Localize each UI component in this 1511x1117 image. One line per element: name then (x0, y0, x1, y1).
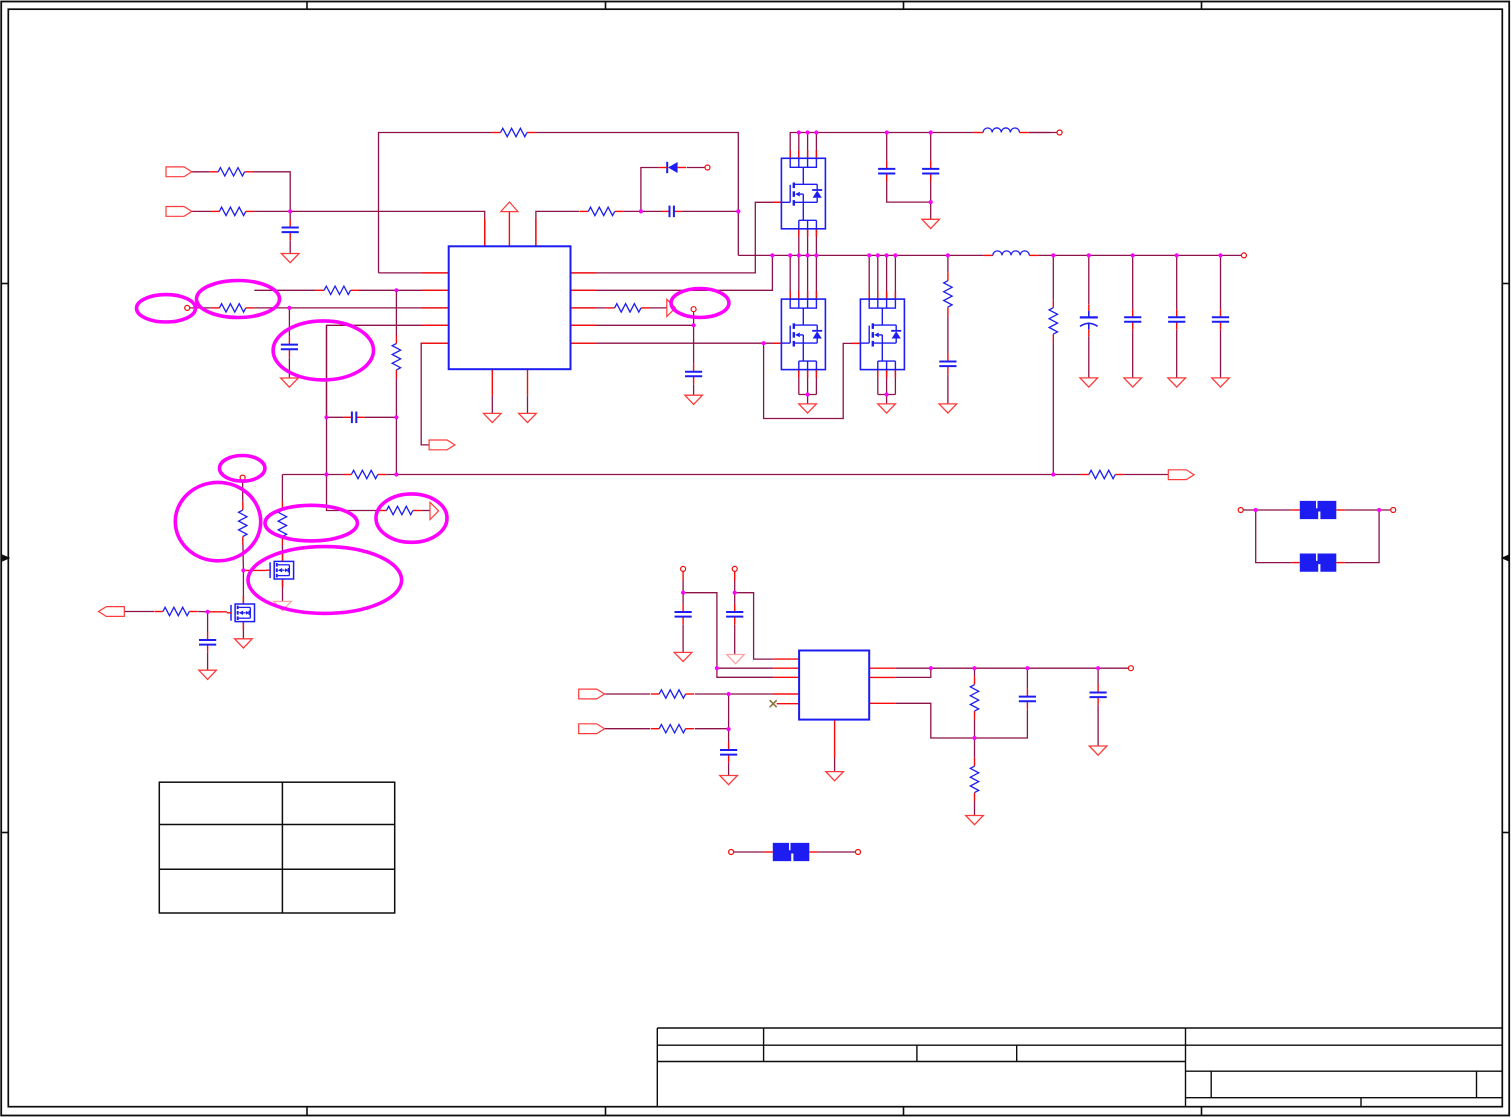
junction rail x1220.5 (1218, 253, 1222, 257)
U2 left pin y694 (773, 693, 799, 695)
wire x396 vertical upper (395, 290, 397, 343)
wire C4 down (886, 133, 888, 169)
terminal circle T2 (732, 566, 737, 571)
wire gate node to M2 drain (242, 570, 244, 604)
wire cap x1132.7 top (1132, 255, 1134, 317)
Q2 top pin wire x798.8 (798, 255, 800, 299)
IC U1 left pin y290.3 (422, 289, 449, 291)
capacitor C11 (1019, 689, 1036, 710)
resistor R8 (snubber) (943, 272, 954, 315)
wire cap x1132.7 gnd (1132, 330, 1134, 378)
junction rail x869.2 (867, 253, 871, 257)
wire gate node down (207, 612, 209, 640)
inductor L2 (984, 249, 1039, 256)
wire cap x1220.5 gnd (1220, 330, 1222, 378)
Q1 top pin stub x798.8 (798, 150, 800, 158)
ground below cap x1220.5 (1212, 378, 1230, 387)
ground below C7 (199, 670, 217, 679)
Q3 top pin stub x886.6 (886, 291, 888, 299)
capacitor output x1176.7 (1168, 309, 1185, 330)
capacitor C6 (344, 412, 364, 424)
resistor R17 (651, 689, 694, 700)
highlight ellipse E1 (137, 295, 196, 322)
wire C1 to gnd (289, 240, 291, 253)
junction rail x816.4 (814, 253, 818, 257)
junction rail x947.9 (946, 253, 950, 257)
rail segment left (738, 254, 984, 256)
wire F3 to F2 right (1345, 510, 1379, 563)
frame zone tick bottom x307 (306, 1107, 308, 1116)
wire C6 right (364, 416, 396, 418)
Q1 bottom pin stub x816.4 (815, 229, 817, 237)
rail segment right (1036, 254, 1241, 256)
ground IC1 bottom 2 (519, 413, 537, 422)
Q1 bottom pin wire x798.8 (798, 229, 800, 256)
junction rail x1088.8 (1087, 253, 1091, 257)
junction rail x886.6 (885, 253, 889, 257)
Q1 bottom pin wire x816.4 (815, 229, 817, 256)
U2 right pin y668.2 (869, 667, 896, 669)
frame zone tick bottom x1201.5 (1201, 1107, 1203, 1116)
ground below M1 (pale) (274, 601, 292, 610)
junction Q1 pin x807.6 (806, 130, 810, 134)
capacitor C5 (922, 161, 939, 182)
junction fb node (972, 736, 976, 740)
wire U2 pinC down (896, 703, 975, 738)
wire R12 to P7 (417, 510, 430, 512)
wire C4 bottom corner (887, 182, 931, 203)
wire R20 to gnd (974, 793, 976, 816)
junction rail x895.4 (893, 253, 897, 257)
frame zone tick top x307 (306, 2, 308, 10)
ground below Q2 (799, 404, 817, 413)
resistor R15 (277, 502, 288, 545)
F3 right stub (1336, 562, 1345, 564)
wire to IC1 left pin1 (379, 272, 449, 274)
wire P10 row (605, 728, 651, 730)
wire cap x1220.5 top (1220, 255, 1222, 317)
Q1 bottom pin wire x807.6 (807, 229, 809, 256)
ground below C13 (281, 378, 299, 387)
ground below C3 (685, 395, 703, 404)
wire IC1 bottom pin2 to gnd (527, 396, 529, 414)
IC U1 (main controller) (449, 246, 571, 369)
ground below R20 (966, 816, 984, 825)
capacitor output x1220.5 (1212, 309, 1229, 330)
resistor R14 (237, 502, 248, 545)
terminal circle node A (240, 475, 245, 480)
junction C5 top (929, 130, 933, 134)
IC U1 left pin y307.9 (422, 307, 449, 309)
junction rail x807.6 (806, 253, 810, 257)
Q3 source to gnd (886, 395, 888, 404)
highlight ellipse E9 (671, 289, 729, 318)
Q3 bottom pin stub x895.4 (894, 370, 896, 378)
Q3 top pin stub x877.8 (877, 291, 879, 299)
terminal circle F1 right (856, 850, 861, 855)
F2 left stub (1291, 509, 1300, 511)
capacitor output x1132.7 (1124, 309, 1141, 330)
frame zone tick bottom x903.5 (903, 1107, 905, 1116)
junction diode row / vertical (736, 209, 740, 213)
wire R14 to gate node (242, 537, 245, 571)
highlight ellipse E4 (220, 456, 265, 482)
terminal circle after D1 (705, 165, 710, 170)
wire C10 to gnd (728, 763, 730, 776)
wire R19 top (974, 668, 976, 685)
M1 gate lead (246, 569, 266, 571)
capacitor C14 (snubber) (939, 354, 956, 375)
frame zone tick left y832.5 (1, 832, 8, 834)
frame zone tick bottom x605.5 (605, 1107, 607, 1116)
ground below C15 (1080, 378, 1098, 387)
wire F1 right (818, 851, 856, 853)
resistor R18 (651, 723, 694, 734)
Q3 bottom pin stub x877.8 (877, 370, 879, 378)
IC U1 right pin y325.3 (571, 324, 597, 326)
wire R18 to node (695, 728, 729, 730)
Q1 top pin stub x790.2 (789, 150, 791, 158)
ground below snubber (939, 404, 957, 413)
frame centering arrow right (1503, 555, 1510, 560)
U2 right pin y677.4 (869, 676, 896, 678)
terminal circle U2 out (1128, 666, 1133, 671)
junction P2/C1 (288, 209, 292, 213)
resistor R2 (211, 206, 254, 217)
F1 left stub (764, 851, 773, 853)
junction F2 left (1254, 508, 1258, 512)
IC U1 right pin y343.2 (571, 342, 597, 344)
ground below C5 (922, 219, 940, 228)
wire P2 row to IC1 top pin 1 (192, 211, 485, 246)
Q2 bottom pin wire x816.4 (815, 370, 817, 395)
port P7 (triangle) (430, 502, 439, 519)
Q3 bottom pin wire x895.4 (894, 370, 896, 395)
diode D1 (659, 161, 687, 174)
wire D1 to terminal (686, 167, 705, 169)
wire P9 row (605, 693, 651, 695)
wire U2 bottom gnd (834, 758, 836, 772)
Q2 bottom pin stub x807.6 (807, 370, 809, 378)
junction C6 left (324, 415, 328, 419)
ground below U2 (826, 772, 844, 781)
wire IC1 rrow2 to rail (571, 255, 773, 290)
Q3 bottom bar (878, 394, 896, 396)
junction T1 (681, 591, 685, 595)
junction rail x790.2 (788, 253, 792, 257)
ground below Q3 (878, 404, 896, 413)
junction C4/C5 gnd (929, 200, 933, 204)
U2 left pin y659.1 (773, 658, 799, 660)
wire node A down (242, 480, 244, 510)
resistor R19 (969, 676, 980, 719)
wire C15 top (1088, 255, 1090, 304)
Q1 top pin stub x816.4 (815, 150, 817, 158)
IC U1 left pin y272.9 (422, 272, 449, 274)
frame zone tick top x1201.5 (1201, 2, 1203, 10)
wire C6 left (327, 416, 344, 418)
wire cap x1176.7 top (1176, 255, 1178, 317)
wire vert circle-cap (693, 312, 695, 372)
F2 right stub (1336, 509, 1345, 511)
switch node wire (790, 133, 1050, 159)
ground IC1 bottom 1 (484, 413, 502, 422)
IC U1 right pin y272.9 (571, 272, 597, 274)
wire C11 top (1026, 668, 1028, 688)
resistor R12 (to P7) (378, 505, 421, 516)
resistor R4 (580, 206, 623, 217)
junction U2 out x930.8 (929, 666, 933, 670)
terminal circle L1 out (1057, 130, 1062, 135)
U2 left pin y668.2 (773, 667, 799, 669)
wire F2 row right (1345, 509, 1391, 511)
Q3 top pin stub x869.2 (868, 291, 870, 299)
wire row4 (327, 325, 449, 417)
junction rail x1176.7 (1175, 253, 1179, 257)
terminal circle rail out (1241, 253, 1246, 258)
U2 pin L5 stub (777, 703, 799, 705)
terminal circle F2 right (1391, 508, 1396, 513)
capacitor C12 (1090, 685, 1107, 706)
IC U1 right pin y307.9 (571, 307, 597, 309)
frame zone tick right y283.5 (1502, 283, 1510, 285)
wire snubber top (947, 255, 949, 280)
highlight ellipse E8 (248, 547, 402, 614)
fuse F2 (1300, 501, 1337, 519)
IC U1 right pin y290.3 (571, 289, 597, 291)
wire IC1 rrow3 (571, 307, 667, 309)
M2 gate lead (210, 611, 227, 613)
junction port2 node (727, 727, 731, 731)
capacitor C10 (720, 742, 737, 763)
highlight ellipse E5 (175, 482, 260, 560)
junction T2 (733, 591, 737, 595)
junction gate link (762, 341, 766, 345)
Q1 top pin wire x798.8 (798, 133, 800, 159)
IC U1 left pin y343.2 (422, 342, 449, 344)
wire T1 down (682, 581, 684, 605)
frame zone tick left y283.5 (1, 283, 8, 285)
ground below cap x1132.7 (1124, 378, 1142, 387)
Q2 top pin stub x816.4 (815, 291, 817, 299)
highlight ellipse E6 (265, 505, 357, 541)
resistor R20 (969, 758, 980, 801)
resistor R16 (154, 606, 197, 617)
Q2 top pin wire x790.2 (789, 255, 791, 299)
wire F1 left (734, 851, 765, 853)
Q3 top pin wire x886.6 (886, 255, 888, 299)
T1 stub (682, 571, 684, 581)
wire C12 top (1097, 668, 1099, 684)
power MOSFET Q2 (781, 299, 825, 370)
junction C4 top (885, 130, 889, 134)
wire R17 to node (695, 693, 773, 695)
T2 stub (734, 571, 736, 581)
Q1 top pin wire x816.4 (815, 133, 817, 159)
wire IC1 rrow5 to gates (571, 342, 782, 344)
IC U1 bottom pin 2 (527, 369, 529, 396)
junction U2 out x1098.1 (1096, 666, 1100, 670)
Q1 bottom pin stub x807.6 (807, 229, 809, 237)
port P1 (input, top-left) (166, 167, 192, 177)
terminal circle F2 left (1238, 508, 1243, 513)
title block (657, 1028, 1502, 1107)
junction row2 / divider (394, 288, 398, 292)
MOSFET M2 (small) (227, 604, 255, 622)
capacitor C13 (row3) (281, 337, 298, 358)
Q3 bottom pin stub x886.6 (886, 370, 888, 378)
Q2 top pin wire x807.6 (807, 255, 809, 299)
fuse F1 (773, 843, 810, 861)
wire branch to U2 pinL2 (717, 667, 773, 669)
wire R19 bottom (974, 711, 976, 738)
terminal circle F1 left (729, 850, 734, 855)
Q1 top pin wire x807.6 (807, 133, 809, 159)
ground below M2 (235, 639, 253, 648)
IC U2 (regulator) (799, 651, 869, 720)
feedback wire top (379, 133, 739, 273)
junction row474 x1053.3 (1051, 472, 1055, 476)
frame zone tick top x605.5 (605, 2, 607, 10)
F3 left stub (1291, 562, 1300, 564)
IC U1 left pin y325.3 (422, 324, 449, 326)
wire C12 to gnd (1097, 705, 1099, 746)
wire L1 to terminal (1029, 132, 1057, 134)
capacitor C15 (polarized) (1080, 304, 1098, 336)
port P8 (output, left) (99, 607, 125, 617)
Q2 bottom pin wire x807.6 (807, 370, 809, 395)
Q2 bottom pin stub x816.4 (815, 370, 817, 378)
wire D1 branch up (641, 168, 659, 212)
Q2 bottom pin stub x798.8 (798, 370, 800, 378)
wire cap x1176.7 gnd (1176, 330, 1178, 378)
wire divider top (1052, 255, 1054, 307)
capacitor C1 (282, 220, 299, 241)
wire C3 to gnd (693, 384, 695, 395)
Q2 bottom bar (799, 394, 817, 396)
IC U1 bottom pin 1 (491, 369, 493, 396)
Q1 bottom pin stub x798.8 (798, 229, 800, 237)
wire F2 row left (1243, 509, 1291, 511)
wire F3 branch (1256, 510, 1292, 563)
Q2 top pin stub x807.6 (807, 291, 809, 299)
wire row3 cap down (288, 308, 290, 345)
wire IC1 pin VCC row (536, 211, 580, 246)
resistor R5 (316, 285, 359, 296)
power MOSFET Q3 (860, 299, 904, 370)
wire M2 source to gnd (242, 622, 244, 639)
IC U1 top pin 1 (484, 219, 486, 247)
capacitor C7 (199, 632, 216, 653)
junction C6 right (394, 415, 398, 419)
M2 top pin stub (242, 596, 244, 604)
junction U2 pinL4 node (727, 692, 731, 696)
wire snubber gnd (947, 374, 949, 404)
revision table (3x2 empty) (159, 782, 394, 913)
IC U1 top pin 3 (535, 219, 537, 247)
wire row2 left (254, 289, 448, 291)
M1 bottom pin stub (282, 579, 284, 587)
Q2 top pin stub x790.2 (789, 291, 791, 299)
inductor L1 (974, 127, 1029, 134)
wire C2 row left (641, 210, 662, 212)
ground below C8 (674, 652, 692, 661)
power flag stem (508, 212, 510, 247)
Q3 gate stub (852, 342, 861, 344)
wire C15 gnd (1088, 336, 1090, 378)
MOSFET M1 (small) (266, 561, 294, 579)
wire node down to port2 node (728, 694, 730, 750)
Q3 top pin wire x869.2 (868, 255, 870, 299)
wire x282 corner (281, 475, 283, 511)
wire R16 to M2 gate node (198, 611, 210, 613)
wire x396 vertical lower (395, 370, 397, 475)
wire C11 bottom (975, 709, 1028, 738)
terminal circle T1 (681, 566, 686, 571)
Q3 top pin wire x895.4 (894, 255, 896, 299)
wire T2 down (734, 581, 736, 605)
resistor R3 (feedback) (492, 127, 535, 138)
capacitor C3 (685, 364, 702, 385)
wire T2 node to U2 pinL1 (735, 593, 773, 659)
Q2 top pin stub x798.8 (798, 291, 800, 299)
wire U2 out row (896, 667, 1129, 669)
resistor R10 (row474 left) (343, 469, 386, 480)
wire P1 to corner (192, 172, 290, 212)
capacitor C9 (726, 604, 743, 625)
resistor R7 (606, 303, 649, 314)
wire IC1 rrow1 to Q1 gate (571, 202, 782, 273)
junction rail x772.4 (770, 253, 774, 257)
wire C5 bottom (930, 182, 932, 220)
Q3 bottom pin wire x886.6 (886, 370, 888, 395)
U2 left pin y677.3 (773, 676, 799, 678)
port P9 (U2 input 1) (579, 689, 605, 699)
junction gate node M1 (241, 568, 245, 572)
ground below C10 (720, 776, 738, 785)
wire C5 down (930, 133, 932, 169)
junction rail x877.8 (876, 253, 880, 257)
capacitor C4 (878, 161, 895, 182)
junction U2 out x974.5 (972, 666, 976, 670)
port P2 (input) (166, 207, 192, 217)
junction M2 gate node (206, 610, 210, 614)
resistor R6 (211, 303, 254, 314)
frame centering arrow left (1, 555, 8, 560)
resistor R1 (210, 166, 253, 177)
highlight ellipse E2 (197, 281, 280, 318)
wire row3 (190, 307, 449, 309)
ground below C1 (281, 254, 299, 263)
ground below cap x1176.7 (1168, 378, 1186, 387)
ground below C12 (1089, 746, 1107, 755)
M2 bottom pin stub (242, 622, 244, 630)
no-connect X on U2 pin (770, 700, 777, 707)
port P6 (row474 out) (1168, 470, 1194, 480)
wire R20 top (974, 738, 976, 766)
junction row474 x396.4 (394, 472, 398, 476)
wire C1 down (289, 211, 291, 227)
terminal circle above rrow4 (691, 307, 696, 312)
junction Q1 pin x816.4 (814, 130, 818, 134)
fuse F3 (1300, 554, 1337, 572)
Q3 top pin stub x895.4 (894, 291, 896, 299)
port P10 (U2 input 2) (579, 724, 605, 734)
wire C7 to gnd (207, 653, 209, 671)
junction rail x1053.3 (1051, 253, 1055, 257)
Q1 top pin stub x807.6 (807, 150, 809, 158)
junction U2 pinL2/L3 (715, 666, 719, 670)
